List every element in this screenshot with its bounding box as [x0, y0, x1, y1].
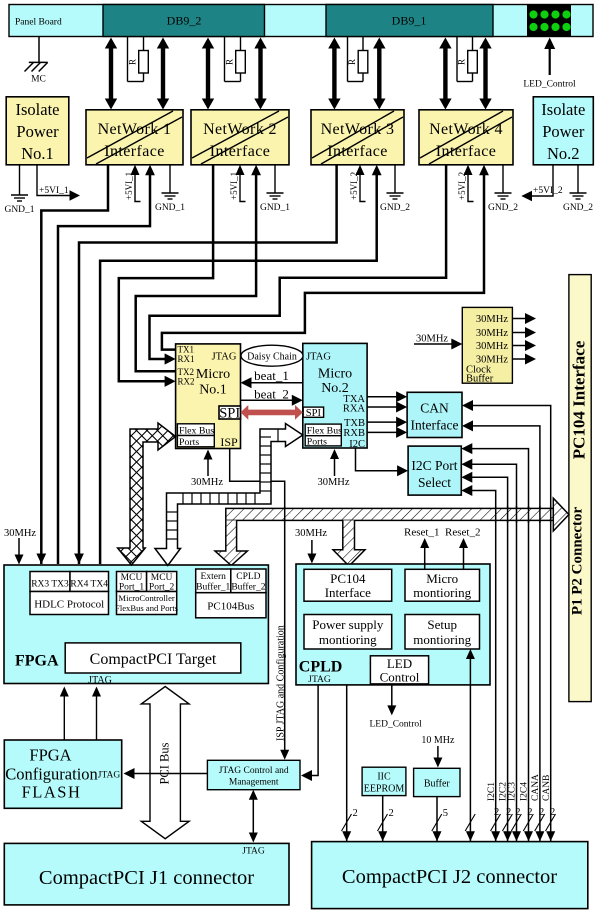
- FPGA MCU Port_2 box: [147, 572, 177, 592]
- svg-text:JTAG: JTAG: [242, 847, 265, 857]
- node Daisy Chain: [241, 345, 303, 366]
- FPGA MicroController FlexBus box: [117, 592, 177, 615]
- svg-text:+5VI_2: +5VI_2: [457, 172, 467, 200]
- svg-text:montioring: montioring: [413, 632, 471, 647]
- svg-text:PC104 Interface: PC104 Interface: [570, 340, 589, 459]
- svg-text:Interface: Interface: [325, 585, 371, 600]
- wire DB9 double arrow A2: [157, 38, 169, 110]
- svg-text:RX3 TX3: RX3 TX3: [31, 580, 69, 590]
- svg-text:2: 2: [353, 808, 358, 819]
- micro U1 Micro No.1: [176, 344, 241, 449]
- svg-text:CPLD: CPLD: [236, 572, 260, 582]
- FPGA PC104Bus box: [196, 593, 266, 618]
- svg-text:2: 2: [494, 807, 499, 818]
- IIC EEPROM box: [362, 767, 406, 795]
- bus FlexBus crosshatch micro1 to MCU Port_1: [118, 423, 176, 565]
- svg-text:RX4 TX4: RX4 TX4: [70, 580, 108, 590]
- connector CompactPCI J2: [312, 842, 588, 909]
- CPLD Micro montioring box: [405, 569, 480, 601]
- svg-text:2: 2: [515, 807, 520, 818]
- network interface box NetWork 3: [311, 110, 404, 165]
- svg-text:SPI: SPI: [219, 405, 240, 421]
- svg-text:Panel Board: Panel Board: [15, 18, 62, 28]
- svg-text:I2C4: I2C4: [520, 782, 530, 801]
- FPGA block: [4, 565, 268, 684]
- FPGA RX4 TX4 port box: [70, 572, 109, 592]
- wire I2C3 from I2C port select to J2: [471, 464, 516, 841]
- svg-text:JTAG: JTAG: [88, 675, 112, 686]
- JTAG control and management box: [207, 760, 300, 789]
- FPGA MCU Port_1 box: [117, 572, 147, 592]
- svg-text:+5VI_1: +5VI_1: [39, 186, 69, 196]
- svg-text:No.2: No.2: [547, 144, 580, 163]
- micro1 SPI port box: [219, 406, 241, 419]
- svg-text:ISP JTAG and Configuration: ISP JTAG and Configuration: [276, 625, 287, 741]
- J2 down arrowheads and slashes for I2C/CAN lines: [491, 831, 555, 841]
- ground GND_2 of isolate power No.2: [577, 165, 579, 193]
- svg-text:FlexBus and Ports: FlexBus and Ports: [115, 603, 179, 613]
- svg-text:30MHz: 30MHz: [416, 334, 448, 345]
- svg-text:NetWork 1: NetWork 1: [98, 121, 172, 138]
- svg-text:I2C Port: I2C Port: [411, 458, 457, 473]
- wire overlays crossing PC104 bus: [285, 506, 551, 523]
- FPGA HDLC protocol box: [30, 592, 109, 615]
- wire FLASH to FPGA jtag line 1: [63, 695, 65, 740]
- connector CompactPCI J1: [4, 843, 289, 905]
- svg-text:JTAG: JTAG: [212, 352, 237, 363]
- svg-text:JTAG: JTAG: [308, 675, 331, 685]
- wire micro2 I2C to I2C port select: [356, 449, 399, 471]
- svg-text:montioring: montioring: [413, 585, 471, 600]
- svg-text:5: 5: [443, 808, 448, 819]
- ground GND_2 of NetWork 3: [394, 165, 396, 193]
- svg-text:30MHz: 30MHz: [295, 528, 327, 539]
- micro U2 Micro No.2: [303, 343, 367, 448]
- svg-text:Daisy Chain: Daisy Chain: [247, 352, 297, 363]
- svg-text:Micro: Micro: [426, 571, 458, 586]
- svg-text:montioring: montioring: [319, 632, 377, 647]
- wire I2C1 from I2C port select to J2: [471, 491, 495, 842]
- svg-text:Reset_2: Reset_2: [445, 527, 480, 539]
- svg-text:No.1: No.1: [21, 144, 54, 163]
- svg-text:Power: Power: [16, 122, 59, 141]
- svg-text:JTAG Control and: JTAG Control and: [219, 766, 289, 776]
- svg-text:30MHz: 30MHz: [476, 314, 508, 325]
- svg-text:10 MHz: 10 MHz: [421, 735, 455, 746]
- wire DB9 double arrow A7: [439, 38, 451, 110]
- svg-text:CANB: CANB: [542, 775, 552, 801]
- svg-text:CompactPCI Target: CompactPCI Target: [90, 651, 217, 668]
- FPGA configuration flash: [4, 740, 121, 808]
- svg-text:GND_2: GND_2: [488, 203, 518, 213]
- wire JTAG ctrl to FLASH: [133, 773, 207, 775]
- svg-text:2: 2: [389, 808, 394, 819]
- net 30MHz clock buffer output 3: [512, 345, 526, 347]
- svg-text:RX2: RX2: [178, 377, 195, 387]
- net 30MHz into micro2: [334, 458, 336, 476]
- svg-text:Ports: Ports: [307, 437, 327, 448]
- svg-text:Select: Select: [418, 475, 451, 490]
- micro2 SPI port box: [303, 407, 323, 417]
- svg-text:RXB: RXB: [343, 428, 365, 439]
- svg-text:CompactPCI J2 connector: CompactPCI J2 connector: [342, 866, 557, 888]
- wire FPGA TX3 to network1: [58, 173, 150, 564]
- CPLD LED Control box: [370, 656, 428, 684]
- bus PC104 hatched horizontal: [226, 508, 554, 520]
- svg-text:R: R: [225, 59, 235, 65]
- svg-text:beat_1: beat_1: [254, 368, 289, 383]
- svg-text:30MHz: 30MHz: [476, 328, 508, 339]
- svg-text:JTAG: JTAG: [98, 771, 121, 781]
- FPGA RX3 TX3 port box: [30, 572, 70, 592]
- svg-text:NetWork 3: NetWork 3: [321, 121, 395, 138]
- network interface box NetWork 4: [419, 110, 513, 165]
- svg-text:HDLC Protocol: HDLC Protocol: [34, 599, 104, 611]
- svg-text:Isolate: Isolate: [541, 100, 585, 119]
- wire ISP JTAG and Configuration: [230, 449, 285, 753]
- svg-text:Buffer: Buffer: [466, 374, 494, 385]
- resistor R4: [457, 37, 477, 82]
- net 30MHz into micro1: [207, 458, 209, 476]
- buffer box: [414, 768, 460, 796]
- FPGA Extern Buffer_1 box: [196, 569, 231, 593]
- net 30MHz clock buffer output 4: [512, 358, 526, 360]
- svg-text:30MHz: 30MHz: [4, 528, 36, 539]
- svg-text:Extern: Extern: [201, 572, 227, 582]
- svg-text:30MHz: 30MHz: [191, 477, 223, 488]
- svg-text:R: R: [128, 59, 138, 65]
- ground GND_1 of NetWork 1: [169, 165, 171, 193]
- FPGA CompactPCI target box: [65, 643, 241, 673]
- ground GND_1 of NetWork 2: [274, 165, 276, 193]
- wire FLASH to FPGA jtag line 2: [96, 695, 98, 740]
- svg-text:CANA: CANA: [531, 774, 541, 801]
- svg-text:Interface: Interface: [327, 143, 387, 160]
- svg-text:Interface: Interface: [436, 143, 496, 160]
- svg-text:NetWork 2: NetWork 2: [203, 121, 277, 138]
- wire SPI red double arrow: [241, 405, 303, 420]
- wire I2C4 from I2C port select to J2: [471, 449, 528, 841]
- svg-text:MCU: MCU: [121, 573, 143, 583]
- svg-text:2: 2: [539, 807, 544, 818]
- connector DB9_1: [326, 5, 493, 37]
- wire CPLD power monitor to J2: [346, 685, 348, 841]
- net 30MHz clock buffer output 2: [512, 332, 526, 334]
- ground GND_2 of NetWork 4: [502, 165, 504, 193]
- wire micro2 RXB to CAN: [367, 431, 397, 433]
- svg-text:+5VI_2: +5VI_2: [349, 172, 359, 200]
- wire CPLD JTAG to JTAG ctrl: [310, 685, 318, 776]
- wire DB9 double arrow A4: [254, 38, 266, 110]
- svg-text:CAN: CAN: [420, 401, 449, 416]
- svg-text:TX1: TX1: [178, 345, 195, 355]
- svg-text:MicroController: MicroController: [118, 593, 174, 603]
- net 30MHz input to clock buffer: [414, 343, 453, 345]
- CPLD PC104 interface box: [304, 569, 392, 601]
- bus PC104 branch down to FPGA buffers: [215, 520, 247, 565]
- wire CANA from CAN to J2: [472, 426, 540, 841]
- svg-text:Isolate: Isolate: [16, 100, 60, 119]
- network interface box NetWork 2: [191, 110, 289, 165]
- svg-text:Control: Control: [380, 670, 420, 685]
- svg-text:Buffer: Buffer: [424, 779, 451, 790]
- svg-text:Interface: Interface: [104, 143, 164, 160]
- svg-text:Power: Power: [542, 122, 585, 141]
- svg-text:2: 2: [527, 807, 532, 818]
- bus FlexBus ladder micro2 to MCU Port_2: [155, 424, 303, 566]
- svg-text:GND_2: GND_2: [563, 203, 593, 213]
- svg-text:2: 2: [506, 807, 511, 818]
- CPLD Power supply montioring box: [304, 615, 392, 650]
- svg-text:30MHz: 30MHz: [317, 477, 349, 488]
- resistor R1: [128, 37, 149, 82]
- svg-text:LED_Control: LED_Control: [370, 720, 423, 730]
- svg-text:Buffer_1: Buffer_1: [196, 582, 230, 593]
- svg-text:DB9_1: DB9_1: [392, 14, 427, 28]
- wire J2 to CPLD setup montioring: [469, 655, 471, 841]
- bus PCI hollow double arrow: [141, 687, 189, 839]
- svg-text:GND_1: GND_1: [4, 205, 34, 215]
- wire FPGA TX4 to network3: [100, 173, 377, 564]
- svg-text:+5VI_2: +5VI_2: [533, 186, 563, 196]
- wire micro1 TX1 to network4: [162, 173, 484, 350]
- svg-text:MC: MC: [31, 75, 46, 85]
- connector DB9_2: [103, 5, 265, 37]
- svg-text:Flex Bus: Flex Bus: [307, 426, 342, 437]
- svg-text:EEPROM: EEPROM: [364, 784, 405, 795]
- wire micro2 TXB to CAN: [367, 421, 397, 423]
- svg-text:PC104: PC104: [330, 571, 366, 586]
- clock buffer U3: [462, 307, 512, 383]
- svg-text:CompactPCI J1 connector: CompactPCI J1 connector: [39, 867, 254, 889]
- net LED_Control to LED block: [549, 48, 551, 75]
- svg-text:Configuration: Configuration: [5, 765, 98, 784]
- net 30MHz clock buffer output 1: [512, 318, 526, 320]
- svg-text:Flex Bus: Flex Bus: [179, 425, 214, 436]
- svg-text:beat_2: beat_2: [254, 387, 289, 402]
- svg-text:Interface: Interface: [411, 418, 459, 433]
- net LED_Control from CPLD: [391, 685, 393, 707]
- svg-text:TX2: TX2: [178, 367, 195, 377]
- svg-text:I2C1: I2C1: [487, 782, 497, 801]
- svg-text:FPGA: FPGA: [29, 746, 71, 765]
- svg-text:IIC: IIC: [377, 772, 391, 783]
- wire buffer to J2: [436, 797, 438, 841]
- ground GND_1 of isolate power No.1: [19, 165, 21, 195]
- wire EEPROM to J2: [382, 796, 384, 841]
- wire DB9 double arrow A5: [328, 38, 340, 110]
- svg-text:LED_Control: LED_Control: [523, 80, 576, 90]
- micro2 Flex Bus Ports box: [305, 424, 341, 436]
- svg-text:FLASH: FLASH: [22, 783, 82, 802]
- isolate power No.1: [6, 97, 69, 165]
- svg-text:Management: Management: [229, 778, 279, 788]
- wire micro2 RXA to CAN: [367, 406, 397, 408]
- svg-text:SPI: SPI: [306, 408, 322, 419]
- wire micro1 TX2 to network2: [136, 173, 256, 371]
- svg-text:Power supply: Power supply: [312, 617, 384, 632]
- svg-text:GND_2: GND_2: [380, 203, 410, 213]
- wire DB9 double arrow A6: [373, 38, 385, 110]
- svg-text:Setup: Setup: [427, 617, 457, 632]
- svg-text:R: R: [457, 59, 467, 65]
- svg-text:NetWork 4: NetWork 4: [429, 121, 503, 138]
- MC chassis ground: [25, 37, 48, 72]
- wire network3 to FPGA RX4: [79, 165, 337, 564]
- svg-text:FPGA: FPGA: [15, 653, 59, 670]
- svg-text:ISP: ISP: [220, 435, 238, 449]
- bus PC104 arrowhead into P1 P2 connector: [553, 498, 569, 531]
- CPLD block: [296, 564, 490, 685]
- net +5VI_2 of NetWork 3: [360, 171, 366, 202]
- svg-text:+5VI_1: +5VI_1: [124, 172, 134, 200]
- panel board bar: [9, 5, 593, 37]
- net +5VI_1 of NetWork 2: [240, 171, 246, 202]
- svg-text:Interface: Interface: [210, 143, 270, 160]
- svg-text:Buffer_2: Buffer_2: [231, 582, 265, 593]
- svg-text:DB9_2: DB9_2: [167, 14, 202, 28]
- wire DB9 double arrow A1: [105, 38, 117, 110]
- svg-text:PCI Bus: PCI Bus: [158, 742, 172, 784]
- net labels I2C1 I2C2 I2C3 I2C4 CANA CANB: [487, 774, 552, 801]
- micro1 Flex Bus Ports box: [177, 424, 214, 436]
- svg-text:Micro: Micro: [318, 367, 352, 382]
- network interface box NetWork 1: [86, 110, 183, 165]
- svg-text:I2C: I2C: [349, 439, 365, 450]
- svg-text:PC104Bus: PC104Bus: [207, 601, 254, 613]
- isolate power No.2: [533, 97, 593, 165]
- svg-text:P1 P2 Connector: P1 P2 Connector: [570, 507, 586, 616]
- wire network2 to micro1 RX2: [119, 165, 213, 381]
- wire DB9 double arrow A3: [202, 38, 214, 110]
- net +5VI_1 from isolate power No.1: [37, 165, 71, 196]
- wire JTAG ctrl to J1 double arrow: [252, 796, 254, 836]
- PC104 / P1 P2 connector yellow bar: [569, 275, 591, 702]
- svg-text:30MHz: 30MHz: [476, 341, 508, 352]
- svg-text:RXA: RXA: [343, 404, 366, 415]
- svg-text:MCU: MCU: [151, 573, 173, 583]
- net +5VI_2 from isolate power No.2: [531, 165, 553, 196]
- svg-text:Reset_1: Reset_1: [404, 527, 439, 539]
- svg-text:+5VI_1: +5VI_1: [229, 172, 239, 200]
- wire micro2 TXA to CAN: [367, 396, 397, 398]
- resistor R2: [225, 37, 246, 82]
- resistor R3: [348, 37, 368, 82]
- svg-text:No.1: No.1: [199, 383, 227, 398]
- wire CANB from CAN to J2: [472, 406, 551, 842]
- wire I2C2 from I2C port select to J2: [471, 477, 507, 841]
- wire DB9 double arrow A8: [479, 38, 491, 110]
- LED block: [527, 5, 571, 37]
- net +5VI_1 of NetWork 1: [135, 171, 141, 202]
- svg-text:GND_1: GND_1: [155, 203, 185, 213]
- wire network1 to FPGA RX3: [41, 165, 108, 564]
- svg-text:Micro: Micro: [196, 367, 230, 382]
- net +5VI_2 of NetWork 4: [468, 171, 474, 202]
- CPLD Setup montioring box: [405, 615, 480, 650]
- wire network4 to micro1 RX1: [150, 165, 447, 359]
- svg-text:2: 2: [550, 807, 555, 818]
- svg-text:Ports: Ports: [179, 437, 199, 448]
- I2C port select U5: [408, 446, 461, 495]
- svg-text:R: R: [347, 59, 357, 65]
- bus PC104 branch down to CPLD PC104 interface: [333, 520, 365, 566]
- svg-text:CPLD: CPLD: [299, 659, 343, 676]
- svg-text:I2C3: I2C3: [508, 782, 518, 801]
- FPGA CPLD Buffer_2 box: [231, 569, 266, 593]
- svg-text:JTAG: JTAG: [306, 352, 331, 363]
- svg-text:GND_1: GND_1: [260, 203, 290, 213]
- CAN interface U4: [407, 392, 462, 437]
- svg-text:RX1: RX1: [178, 354, 195, 364]
